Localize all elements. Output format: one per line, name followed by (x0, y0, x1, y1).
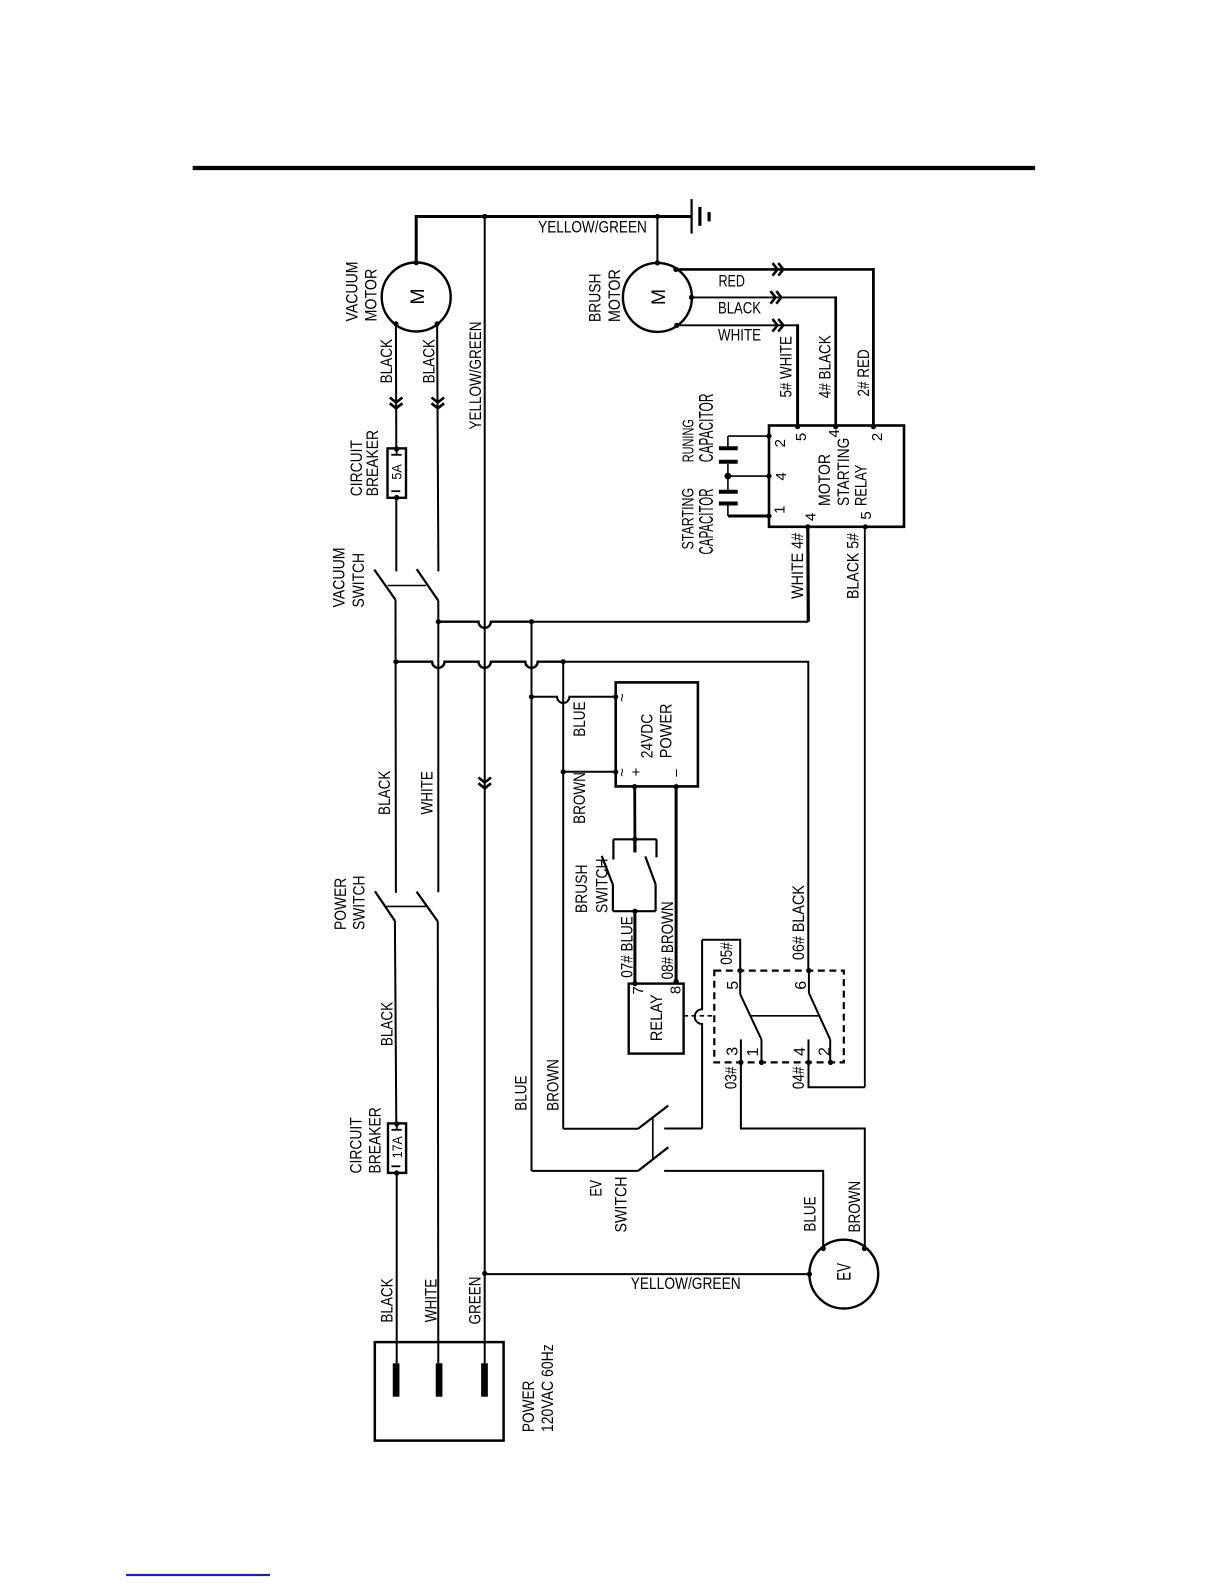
svg-text:M: M (648, 289, 670, 305)
svg-text:BLACK: BLACK (376, 771, 394, 815)
svg-text:MOTOR: MOTOR (606, 269, 624, 322)
svg-text:BLUE: BLUE (802, 1196, 820, 1231)
svg-text:BREAKER: BREAKER (367, 1107, 385, 1173)
svg-text:8: 8 (668, 986, 685, 994)
svg-text:WHITE: WHITE (718, 327, 761, 345)
svg-text:MOTOR: MOTOR (816, 454, 834, 506)
svg-text:2# RED: 2# RED (855, 349, 873, 396)
svg-text:6: 6 (793, 981, 810, 990)
svg-text:4: 4 (826, 429, 843, 437)
svg-text:RED: RED (718, 272, 745, 290)
svg-text:BROWN: BROWN (545, 1059, 563, 1111)
svg-text:CAPACITOR: CAPACITOR (696, 489, 718, 555)
svg-text:17A: 17A (389, 1136, 405, 1159)
svg-text:SWITCH: SWITCH (613, 1177, 631, 1233)
svg-text:1: 1 (745, 1047, 762, 1056)
svg-text:4: 4 (773, 472, 790, 480)
svg-text:MOTOR: MOTOR (362, 269, 380, 322)
svg-text:5: 5 (725, 981, 742, 990)
svg-text:03#: 03# (722, 1066, 740, 1089)
svg-text:SWITCH: SWITCH (593, 859, 611, 914)
svg-text:WHITE 4#: WHITE 4# (789, 532, 807, 599)
svg-text:BREAKER: BREAKER (364, 430, 382, 496)
svg-text:4: 4 (792, 1047, 809, 1056)
svg-text:5# WHITE: 5# WHITE (778, 336, 796, 398)
svg-text:POWER: POWER (657, 703, 675, 758)
svg-text:GREEN: GREEN (466, 1277, 484, 1325)
svg-text:POWER: POWER (332, 878, 350, 930)
svg-text:BLACK 5#: BLACK 5# (844, 532, 862, 599)
svg-text:STARTING: STARTING (680, 488, 698, 550)
svg-text:BLACK: BLACK (420, 339, 438, 383)
svg-text:CIRCUIT: CIRCUIT (348, 1117, 366, 1173)
svg-text:WHITE: WHITE (423, 1279, 441, 1323)
svg-text:BLACK: BLACK (379, 1002, 397, 1046)
svg-text:YELLOW/GREEN: YELLOW/GREEN (467, 322, 485, 430)
svg-text:EV: EV (588, 1180, 606, 1197)
svg-text:M: M (407, 288, 429, 304)
svg-text:BLUE: BLUE (571, 701, 589, 736)
svg-text:STARTING: STARTING (835, 438, 853, 506)
svg-text:RELAY: RELAY (853, 465, 871, 506)
svg-text:06# BLACK: 06# BLACK (790, 885, 808, 960)
svg-text:1: 1 (771, 506, 788, 514)
svg-text:RELAY: RELAY (648, 994, 666, 1041)
svg-text:2: 2 (817, 1047, 834, 1056)
svg-text:4# BLACK: 4# BLACK (817, 335, 835, 398)
svg-text:24VDC: 24VDC (638, 714, 656, 759)
svg-text:RUNING: RUNING (680, 419, 697, 462)
svg-text:EV: EV (834, 1263, 856, 1281)
svg-text:SWITCH: SWITCH (351, 876, 369, 931)
svg-text:+: + (628, 767, 645, 776)
svg-text:3: 3 (724, 1047, 741, 1056)
svg-text:5: 5 (793, 433, 810, 441)
svg-text:CAPACITOR: CAPACITOR (696, 394, 718, 463)
svg-text:4: 4 (803, 513, 820, 521)
svg-text:YELLOW/GREEN: YELLOW/GREEN (538, 219, 647, 237)
svg-text:7: 7 (630, 986, 647, 994)
svg-text:POWER: POWER (520, 1381, 538, 1433)
svg-text:WHITE: WHITE (419, 771, 437, 815)
svg-text:BLACK: BLACK (379, 1278, 397, 1322)
svg-text:120VAC 60Hz: 120VAC 60Hz (539, 1344, 557, 1432)
svg-text:08# BROWN: 08# BROWN (659, 901, 677, 979)
svg-text:VACUUM: VACUUM (331, 548, 349, 608)
svg-text:2: 2 (772, 439, 789, 447)
svg-text:07# BLUE: 07# BLUE (619, 916, 637, 978)
svg-text:BRUSH: BRUSH (573, 865, 591, 914)
svg-text:5: 5 (858, 511, 875, 519)
svg-text:BROWN: BROWN (846, 1181, 864, 1233)
svg-text:04#: 04# (790, 1066, 808, 1089)
svg-text:VACUUM: VACUUM (344, 262, 362, 322)
svg-text:SWITCH: SWITCH (350, 553, 368, 608)
svg-text:BLUE: BLUE (513, 1075, 531, 1110)
svg-text:BLACK: BLACK (378, 339, 396, 383)
svg-text:BLACK: BLACK (718, 300, 761, 318)
svg-text:−: − (668, 768, 685, 777)
svg-text:05#: 05# (718, 942, 736, 965)
svg-text:5A: 5A (389, 464, 405, 480)
svg-text:~: ~ (614, 693, 631, 702)
svg-text:BROWN: BROWN (571, 772, 589, 824)
svg-text:2: 2 (869, 433, 886, 441)
svg-text:BRUSH: BRUSH (587, 274, 605, 323)
svg-text:YELLOW/GREEN: YELLOW/GREEN (631, 1275, 741, 1293)
